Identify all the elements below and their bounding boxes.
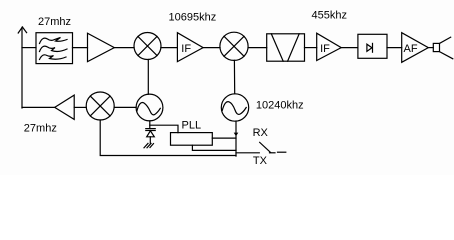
wire AF amp to speaker [428, 47, 433, 49]
wire mixer M2 to ceramic filter FL2 [248, 47, 267, 49]
varactor diode D1 [146, 125, 155, 143]
mixer M3 [86, 92, 114, 120]
antenna [18, 27, 26, 108]
svg-text:TX: TX [253, 155, 268, 167]
wire mixer M1 to oscillator X1 [147, 60, 149, 95]
wire oscillator X2 down (control line) [235, 121, 237, 156]
oscillator X1 [136, 94, 163, 121]
svg-text:RX: RX [253, 127, 269, 139]
wire mixer M1 to IF amp A2 [161, 47, 178, 49]
svg-text:10695khz: 10695khz [169, 12, 217, 24]
speaker LS1 [433, 37, 453, 59]
bandpass filter FL1 27mhz [36, 33, 73, 64]
wire IF amp A2 to mixer M2 [203, 47, 220, 49]
wire mixer M3 to TX net [100, 120, 236, 156]
arrow on control line [234, 133, 239, 137]
wire detector to AF amp A4 [387, 47, 402, 49]
wire RF amp to mixer M1 [114, 47, 134, 49]
svg-text:PLL: PLL [182, 120, 202, 132]
RF amplifier A1 [88, 33, 115, 61]
wire antenna to RX bandpass filter [22, 47, 36, 49]
svg-text:27mhz: 27mhz [38, 16, 71, 28]
svg-text:IF: IF [320, 43, 330, 55]
IF amplifier A3 [317, 33, 342, 60]
svg-text:AF: AF [404, 43, 418, 55]
detector U1 [358, 34, 387, 58]
mixer M2 [220, 32, 248, 60]
wire mixer M3 to oscillator X1 [114, 106, 136, 108]
ground [144, 143, 154, 147]
svg-text:27mhz: 27mhz [24, 123, 57, 135]
svg-text:10240khz: 10240khz [256, 100, 304, 112]
oscillator X2 10240khz [221, 94, 248, 121]
wire mixer M2 to oscillator X2 [233, 60, 235, 93]
wire ceramic filter to IF amp A3 [305, 47, 317, 49]
wire oscillator X1 to PLL [150, 121, 178, 133]
PLL box U2 [171, 133, 213, 146]
switch S1 arm [260, 142, 286, 152]
wire PLL output to node X [212, 137, 236, 139]
wire filter to RF amp [73, 47, 88, 49]
wire TX amp to mixer M3 [74, 106, 86, 108]
ceramic filter FL2 455khz [267, 34, 305, 61]
wire IF amp A3 to detector U1 [341, 47, 358, 49]
svg-text:455khz: 455khz [312, 10, 347, 22]
wire PLL bottom to node X [192, 145, 236, 150]
wire antenna down to TX amp [22, 106, 55, 108]
IF amplifier A2 [177, 33, 203, 62]
svg-text:IF: IF [181, 43, 191, 55]
mixer M1 [134, 33, 161, 60]
wire node X to RX/TX switch [236, 152, 259, 154]
AF amplifier A4 [402, 33, 429, 63]
TX amplifier A5 [55, 95, 74, 119]
